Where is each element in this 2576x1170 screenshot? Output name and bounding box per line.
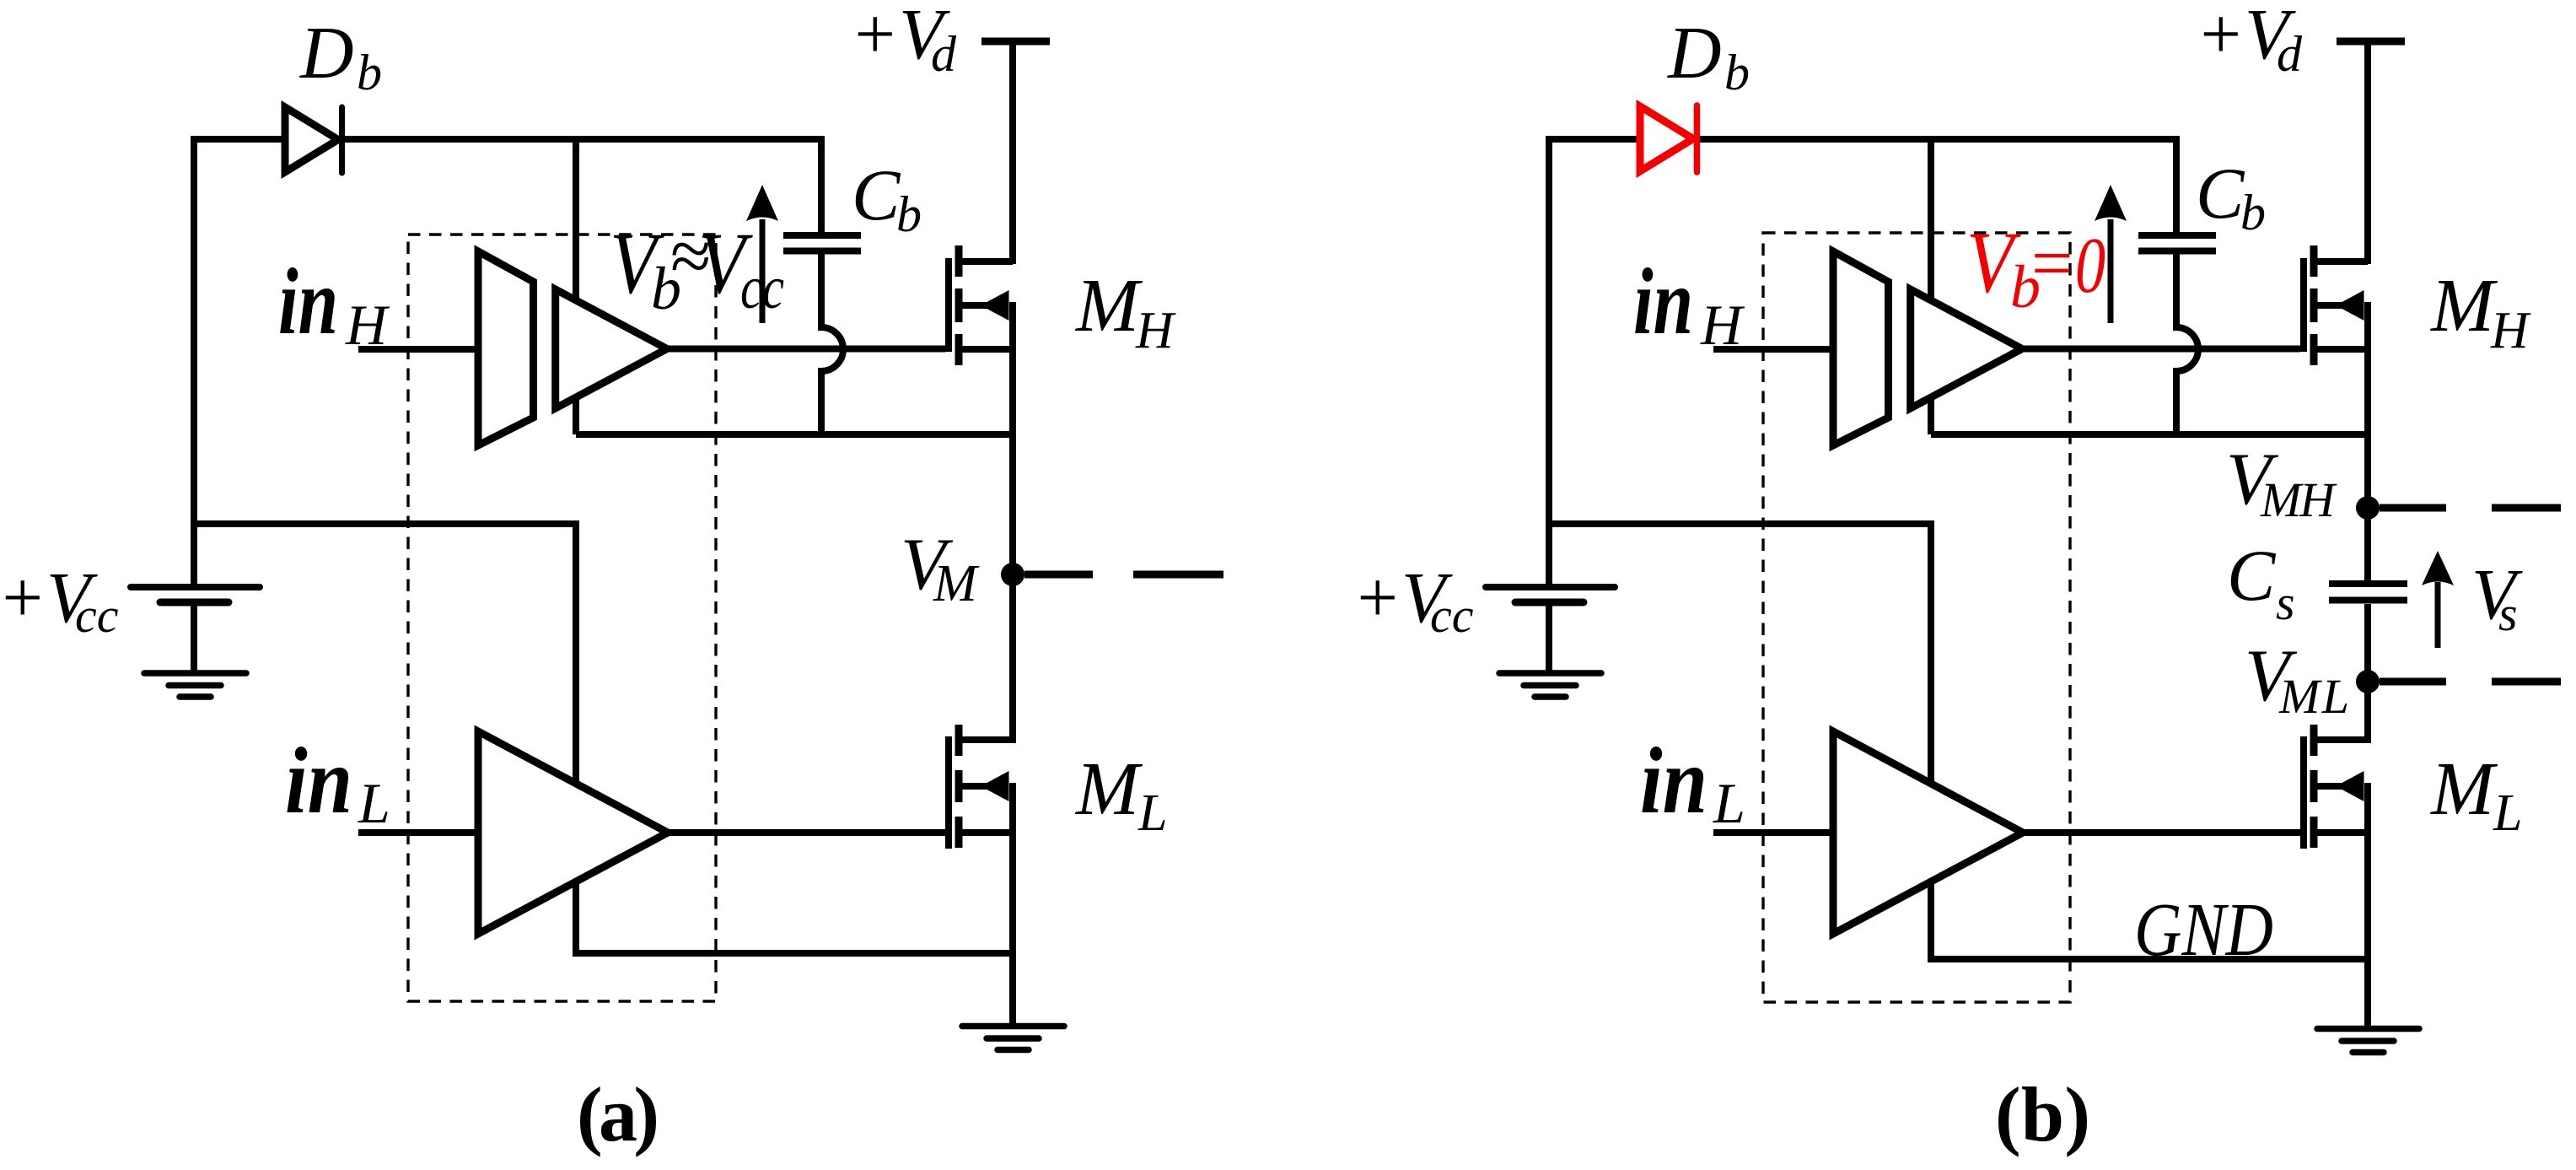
wire: Cs bottom plate down through VML node to ML drain (b) [2364, 604, 2371, 743]
VM output break dashes (a) [1024, 571, 1223, 579]
buffer low-side triangle U4 (b) [1833, 731, 2023, 934]
ground symbol under battery (b) [1499, 673, 1601, 697]
svg-text:b: b [1724, 45, 1750, 100]
svg-text:0: 0 [2075, 222, 2105, 310]
node VM dot (a) [1001, 563, 1024, 586]
svg-text:d: d [2277, 26, 2303, 82]
svg-text:L: L [2493, 784, 2522, 842]
svg-text:D: D [1667, 13, 1722, 94]
svg-text:cc: cc [75, 588, 119, 643]
svg-text:L: L [358, 771, 390, 835]
power rail +Vd terminal bar (b) [2337, 38, 2405, 46]
svg-text:GND: GND [2134, 888, 2273, 972]
wire: inH input lead (a) [358, 346, 478, 353]
wire: Cb bottom plate down with hop over gate wire (a) [821, 254, 843, 434]
svg-text:M: M [1074, 747, 1143, 831]
buffer stage2 triangle U3b (b) [1911, 289, 2022, 408]
svg-text:(a): (a) [577, 1071, 659, 1157]
svg-text:in: in [1640, 729, 1707, 833]
transistor MH (b) [2304, 245, 2368, 365]
label Vb=0 red (b) [1966, 214, 2105, 321]
VMH output break dashes (b) [2380, 504, 2561, 512]
wire: +Vcc branch down and along GND bottom to ML source (b) [1549, 524, 2368, 959]
wire: ML body-source rail down to ground (b) [2364, 783, 2371, 1029]
svg-text:M: M [2429, 264, 2498, 348]
svg-text:C: C [852, 154, 901, 235]
driver IC dashed box (b) [1763, 233, 2070, 1002]
svg-text:M: M [933, 555, 980, 612]
buffer stage1 trapezoid U3a (b) [1833, 251, 1889, 445]
wire: inH input lead (b) [1713, 346, 1833, 353]
buffer stage1 trapezoid U1a (a) [478, 251, 534, 445]
VML output break dashes (b) [2380, 678, 2561, 686]
svg-text:(b): (b) [1995, 1071, 2090, 1157]
ground symbol under ML (b) [2317, 1029, 2419, 1053]
battery +Vcc (a) [131, 587, 260, 671]
wire: +Vd rail down to MH drain (b) [2364, 41, 2371, 264]
svg-text:D: D [299, 13, 354, 94]
svg-text:in: in [278, 250, 338, 354]
svg-text:d: d [931, 26, 957, 82]
wire: high-side gate wire buffer tip to MH gate (a) [667, 346, 946, 353]
transistor ML body arrow (a) [981, 771, 1009, 801]
svg-text:L: L [1713, 771, 1745, 835]
wire: MH body-source rail down through VM node to ML drain (a) [1009, 302, 1016, 743]
node: Vb rail tee down at x=683 (a) [573, 139, 579, 434]
node VMH dot (b) [2356, 496, 2380, 520]
transistor ML (a) [949, 725, 1013, 849]
diode Db (a): anode triangle [285, 107, 338, 172]
transistor MH body arrow (a) [981, 290, 1009, 321]
svg-text:=: = [2031, 223, 2073, 305]
svg-text:H: H [1135, 302, 1176, 359]
transistor MH (a) [949, 245, 1013, 365]
svg-text:M: M [1074, 264, 1143, 348]
wire: high-side gate wire buffer tip to MH gate (b) [2022, 346, 2301, 353]
svg-text:C: C [2227, 535, 2277, 616]
ground symbol under ML (a) [962, 1027, 1064, 1050]
buffer low-side triangle U2 (a) [478, 731, 668, 934]
wire: low-side gate wire buffer tip to ML gate (a) [668, 829, 946, 836]
transistor ML (b) [2304, 725, 2368, 849]
wire: diode cathode to Cb top, corner down (a) [344, 139, 821, 233]
buffer stage2 triangle U1b (a) [556, 289, 667, 408]
diode Db (b) red: cathode bar [1694, 105, 1701, 172]
node: Vb rail tee down at x=2290 (b) [1928, 139, 1934, 434]
wire: driver bottom rail y=515 to MH source rail (a) [576, 431, 1013, 438]
wire: diode cathode to Cb top, corner down (b) [1700, 139, 2176, 233]
arrow Vb measurement (b) [2108, 219, 2114, 323]
wire: Cb bottom plate down with hop over gate wire (b) [2176, 254, 2198, 434]
svg-text:H: H [1700, 293, 1745, 357]
transistor MH body arrow (b) [2336, 290, 2364, 321]
arrow Vb measurement (a) [760, 219, 766, 323]
wire: ML body-source rail down to ground (a) [1009, 783, 1016, 1027]
power rail +Vd terminal bar (a) [981, 38, 1050, 46]
svg-text:M: M [2429, 747, 2498, 831]
svg-text:s: s [2276, 575, 2295, 630]
svg-text:s: s [2498, 586, 2518, 641]
driver IC dashed box (a) [408, 235, 716, 1001]
wire: inL input lead (a) [358, 829, 478, 836]
transistor ML body arrow (b) [2336, 771, 2364, 801]
svg-text:cc: cc [1430, 588, 1474, 643]
wire: low-side gate wire buffer tip to ML gate (b) [2023, 829, 2301, 836]
node VML dot (b) [2356, 670, 2380, 693]
ground symbol under battery (a) [144, 673, 246, 697]
svg-text:C: C [2196, 153, 2245, 234]
battery +Vcc (b) [1486, 587, 1615, 671]
capacitor Cb (b) plates [2138, 235, 2216, 251]
diode Db (b) red: anode triangle [1640, 106, 1693, 171]
svg-text:L: L [1137, 784, 1167, 842]
svg-text:in: in [1633, 250, 1693, 354]
wire: +Vd rail down to MH drain (a) [1009, 41, 1016, 264]
capacitor Cb (a) plates [783, 235, 861, 251]
svg-text:b: b [2240, 185, 2266, 240]
wire: driver bottom rail y=515 to MH source rail (b) [1931, 431, 2368, 438]
wire: Vcc positive lead + top bootstrap wire to diode anode (a) [194, 139, 284, 585]
wire: inL input lead (b) [1713, 829, 1833, 836]
arrow Vs measurement (b) [2435, 582, 2441, 648]
wire: Vcc positive lead + top bootstrap wire to diode anode (b) [1549, 139, 1639, 585]
svg-text:MH: MH [2260, 472, 2337, 527]
wire: MH source rail down through VMH node to Cs top plate (b) [2364, 302, 2371, 581]
svg-text:ML: ML [2278, 669, 2349, 724]
svg-text:H: H [2490, 302, 2531, 359]
svg-text:cc: cc [740, 254, 784, 321]
wire: +Vcc branch down and along bottom to ML source (a) [194, 524, 1013, 953]
svg-text:in: in [285, 729, 352, 833]
svg-text:b: b [357, 45, 382, 100]
diode Db (a): cathode bar [339, 107, 345, 173]
svg-text:H: H [345, 293, 390, 357]
capacitor Cs (b) plates [2329, 584, 2407, 601]
svg-text:b: b [896, 186, 922, 242]
